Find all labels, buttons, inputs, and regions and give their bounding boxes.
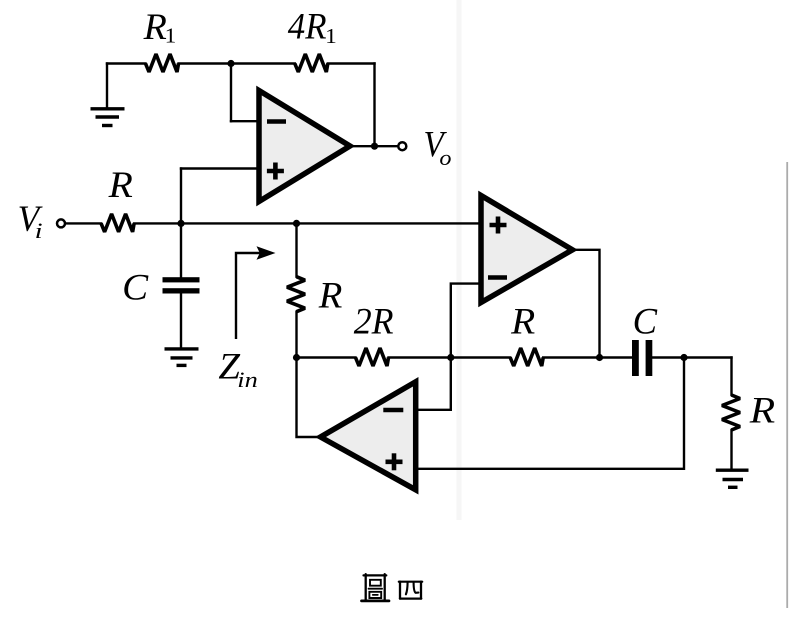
wire 2R to node E bbox=[389, 356, 451, 358]
svg-text:R: R bbox=[749, 391, 776, 432]
wire U1 output to Vo terminal bbox=[350, 145, 398, 147]
ground G1 top-left bbox=[91, 109, 125, 126]
svg-text:4R: 4R bbox=[288, 7, 327, 48]
wire node E to resistor R mid bbox=[451, 356, 510, 358]
node F rail2 bbox=[596, 354, 603, 361]
svg-text:R: R bbox=[318, 275, 343, 316]
capacitor C1 plate bottom bbox=[163, 288, 200, 293]
terminal Vi bbox=[57, 219, 65, 227]
node D rail2 bbox=[293, 354, 300, 361]
op-amp U1 bbox=[259, 91, 350, 202]
svg-text:R: R bbox=[510, 302, 535, 343]
wire main rail node B to U2 plus pin bbox=[134, 222, 478, 224]
wire right corner down to output node bbox=[373, 64, 375, 147]
wire node D to resistor 2R bbox=[297, 356, 356, 358]
resistor R input bbox=[101, 214, 134, 232]
node A top bbox=[227, 60, 234, 67]
node U1 output bbox=[371, 143, 378, 150]
op-amp U3 bbox=[321, 382, 416, 490]
scan artifact faint band bbox=[457, 0, 462, 520]
scan artifact right edge line bbox=[786, 162, 788, 608]
resistor R mid rail bbox=[510, 348, 543, 366]
wire vertical resistor R to node D bbox=[295, 312, 297, 358]
node B rail1 bbox=[177, 220, 184, 227]
resistor R vertical left bbox=[287, 277, 305, 312]
svg-text:i: i bbox=[35, 218, 43, 243]
wire right corner down to resistor R right bbox=[730, 358, 732, 396]
wire into U1 minus pin bbox=[231, 120, 259, 122]
capacitor C2 plate right bbox=[646, 340, 653, 376]
wire capacitor C1 to ground bbox=[180, 294, 182, 348]
wire node G down to U3 plus pin bbox=[416, 358, 684, 469]
wire R1 to node A bbox=[179, 62, 295, 64]
svg-text:1: 1 bbox=[325, 24, 337, 48]
capacitor C1 plate top bbox=[163, 277, 200, 282]
svg-text:in: in bbox=[237, 367, 257, 392]
wire ground lead top-left bbox=[106, 64, 108, 108]
resistor R1 bbox=[146, 54, 179, 72]
wire capacitor C2 to node G bbox=[652, 356, 684, 358]
svg-text:R: R bbox=[143, 7, 167, 48]
wire U3 output elbow up to node D bbox=[297, 358, 321, 438]
resistor 4R1 bbox=[295, 54, 328, 72]
resistor 2R bbox=[356, 348, 389, 366]
svg-text:o: o bbox=[439, 145, 451, 170]
caption figure four glyph si bbox=[399, 582, 422, 599]
wire Vi terminal to resistor R bbox=[66, 222, 101, 224]
wire 4R1 to right corner bbox=[328, 62, 375, 64]
wire node E down to U3 minus elbow bbox=[416, 358, 451, 410]
wire resistor R mid to node F bbox=[543, 356, 632, 358]
wire node C down to vertical resistor R bbox=[295, 223, 297, 276]
node C rail1 bbox=[293, 220, 300, 227]
op-amp U2 bbox=[481, 196, 573, 303]
wire node G to right branch corner bbox=[684, 356, 732, 358]
wire resistor R right to ground bbox=[730, 430, 732, 468]
caption figure four glyph tu bbox=[362, 574, 390, 601]
wire U2 minus pin elbow bbox=[451, 284, 479, 358]
wire U2 output elbow down to node F bbox=[573, 250, 600, 358]
svg-text:C: C bbox=[633, 301, 659, 342]
arrow Zin bbox=[236, 246, 276, 339]
svg-text:1: 1 bbox=[165, 23, 177, 47]
node E rail2 bbox=[447, 354, 454, 361]
capacitor C2 plate left bbox=[632, 340, 639, 376]
svg-text:C: C bbox=[122, 268, 149, 309]
wire into U1 plus pin bbox=[181, 167, 259, 169]
ground G2 below C1 bbox=[165, 349, 199, 366]
svg-text:2R: 2R bbox=[354, 301, 394, 342]
wire U1 plus lead down to node B bbox=[180, 169, 182, 224]
wire node A down to U1 inverting input bbox=[230, 64, 232, 122]
terminal Vo bbox=[398, 142, 406, 150]
resistor R right bbox=[722, 395, 740, 430]
node G rail2 bbox=[680, 354, 687, 361]
wire node B down to capacitor C1 bbox=[180, 223, 182, 277]
wire top-left to R1 bbox=[107, 62, 146, 64]
ground G3 right bbox=[716, 470, 749, 487]
svg-text:R: R bbox=[108, 165, 133, 206]
